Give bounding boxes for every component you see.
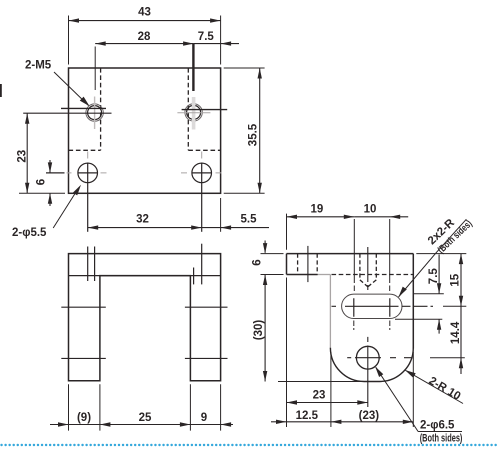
svg-text:2-R 10: 2-R 10 [427,375,463,403]
side view: bottom with 2-R10 corners [330,348,413,382]
phi6.5 crosshair vertical + 23 extension [367,337,369,407]
side view: arm right edge [412,254,414,349]
dim (9)/25/9 extension lines [69,384,221,430]
slot left arc-center extension line [353,219,355,291]
phi5.5 right vertical centerline + 32 extension [201,163,203,232]
dim 7.5 line (to right edge) [194,43,239,45]
svg-text:(23): (23) [359,410,380,422]
svg-text:25: 25 [139,412,152,424]
label 2x2-R leader [399,219,467,297]
front view: fork outline [69,254,221,381]
phi5.5 right horizontal centerline [192,172,213,174]
sensing slot (obround 10 x 7.5) [342,294,402,318]
svg-text:35.5: 35.5 [247,123,259,146]
dim 43 line [69,20,221,22]
svg-text:14.4: 14.4 [450,321,462,344]
front hole centerline phi5.5 left [87,247,89,282]
phi6.5 crosshair horizontal [347,357,412,359]
hole 2-phi5.5 right [192,163,212,183]
dim 35.5 extension lines [224,68,265,193]
M5 left horizontal line upper [61,107,106,109]
svg-text:32: 32 [136,214,149,226]
M5 hole centerline [367,247,369,290]
dim 19 extension (left edge up) [286,214,288,250]
dim 12.5 line [271,421,287,423]
side view: flange bottom hidden behind arm (dashed) [332,274,414,276]
dim 28 extension right (bold) [192,44,194,91]
svg-text:9: 9 [201,412,207,424]
hidden fork arm right (dashed) [188,68,220,150]
hole 2-phi6.5 [356,346,379,369]
svg-text:10: 10 [364,203,377,215]
dim 23 line [26,113,28,193]
dim (30) bottom arrow [263,371,267,382]
svg-text:12.5: 12.5 [296,410,319,422]
left extension lines (6 / 30) [261,254,364,382]
phi5.5 left vertical centerline + 32 extension [87,163,89,232]
dim 35.5 line [259,68,261,193]
M5 left horizontal centerline / 23 extension [23,112,111,114]
right extension lines (7.5 / 15 / 14.4) [395,254,466,358]
svg-text:2-φ6.5: 2-φ6.5 [420,420,455,432]
optical axis line lower (hole level) [61,357,227,359]
M5 left vertical centerline (gray) [94,97,96,130]
label 2-M5 leader [54,72,89,106]
svg-text:5.5: 5.5 [241,214,258,226]
side view: flange left edge [286,254,288,275]
dim 32 line [88,227,202,229]
slot arc-center ticks [354,298,390,316]
svg-text:2-φ5.5: 2-φ5.5 [12,227,47,239]
dim 28 extension left (thin) [94,47,96,91]
dim 6 line (top view left) [49,160,51,206]
slot arc-center dashes below [354,321,390,331]
hidden phi5.5 hole in flange (dashed) [298,254,318,275]
svg-text:23: 23 [17,150,29,163]
left margin crop mark [0,84,2,97]
M5 right horizontal line upper [182,109,228,111]
right edge extension below [220,198,222,232]
dim 5.5 line [202,227,269,229]
dim 7.5 (slot width) [438,255,440,334]
svg-text:(Both sides): (Both sides) [420,433,463,445]
dim 19 line [287,216,355,218]
svg-text:19: 19 [311,203,324,215]
side view: top edge [287,253,414,255]
svg-text:6: 6 [252,259,264,265]
side view: arm left edge (gray) [329,275,331,349]
dim (9)/25/9 line [50,424,233,426]
top view: part outline 43x35.5 [69,68,221,193]
dim 43 extension lines [69,16,221,65]
dim 23 (side) line [287,402,368,404]
side view: flange bottom visible edge [287,274,318,276]
svg-text:43: 43 [138,7,151,19]
svg-text:15: 15 [449,273,461,286]
tapped hole 2-M5 left: thread circles [86,104,103,121]
cyan dotted rule [2,444,500,446]
hole 2-phi5.5 left [78,163,98,183]
svg-text:2-M5: 2-M5 [25,60,52,72]
svg-text:(9): (9) [77,412,91,424]
dim (23) line [287,421,414,423]
dim 6 (side view) [264,241,266,382]
optical axis line upper (slot level) [61,306,227,308]
bottom extension lines (23 / 12.5 / (23)) [287,278,414,428]
slot right arc-center extension line [389,219,391,291]
bottom edge extension (left) [19,192,65,194]
label 2-phi5.5 leader [53,192,76,228]
slot horizontal centerline [332,305,434,307]
dim 15 line [460,254,462,307]
label 2-phi6.5 leader [376,367,462,431]
svg-text:6: 6 [36,179,48,185]
phi5.5 flange hole centerline [307,246,309,282]
dim 28 line [95,43,193,45]
svg-text:7.5: 7.5 [428,268,440,285]
hidden fork arm left (dashed) [69,68,101,150]
dim 14.4 line [460,306,462,374]
M5 right horizontal centerline (gray) [177,112,210,114]
front hole centerline phi5.5 right [201,244,203,285]
hidden M5 tapped hole with drill point (dashed) [360,254,376,287]
label 2-R10 leader [405,370,463,404]
front hole centerline M5 right [193,268,195,285]
svg-text:23: 23 [313,389,326,401]
dim 10 line [354,216,408,218]
M5 right vertical centerline (light band) [192,97,196,130]
svg-text:7.5: 7.5 [198,31,215,43]
svg-text:28: 28 [138,31,151,43]
phi5.5 left horizontal centerline + 6 extension [46,172,98,174]
front hole centerline M5 left [94,247,96,282]
tapped hole 2-M5 right: thread circles [185,104,202,121]
svg-text:(30): (30) [253,320,265,341]
front view flange bottom edge across [69,275,221,277]
